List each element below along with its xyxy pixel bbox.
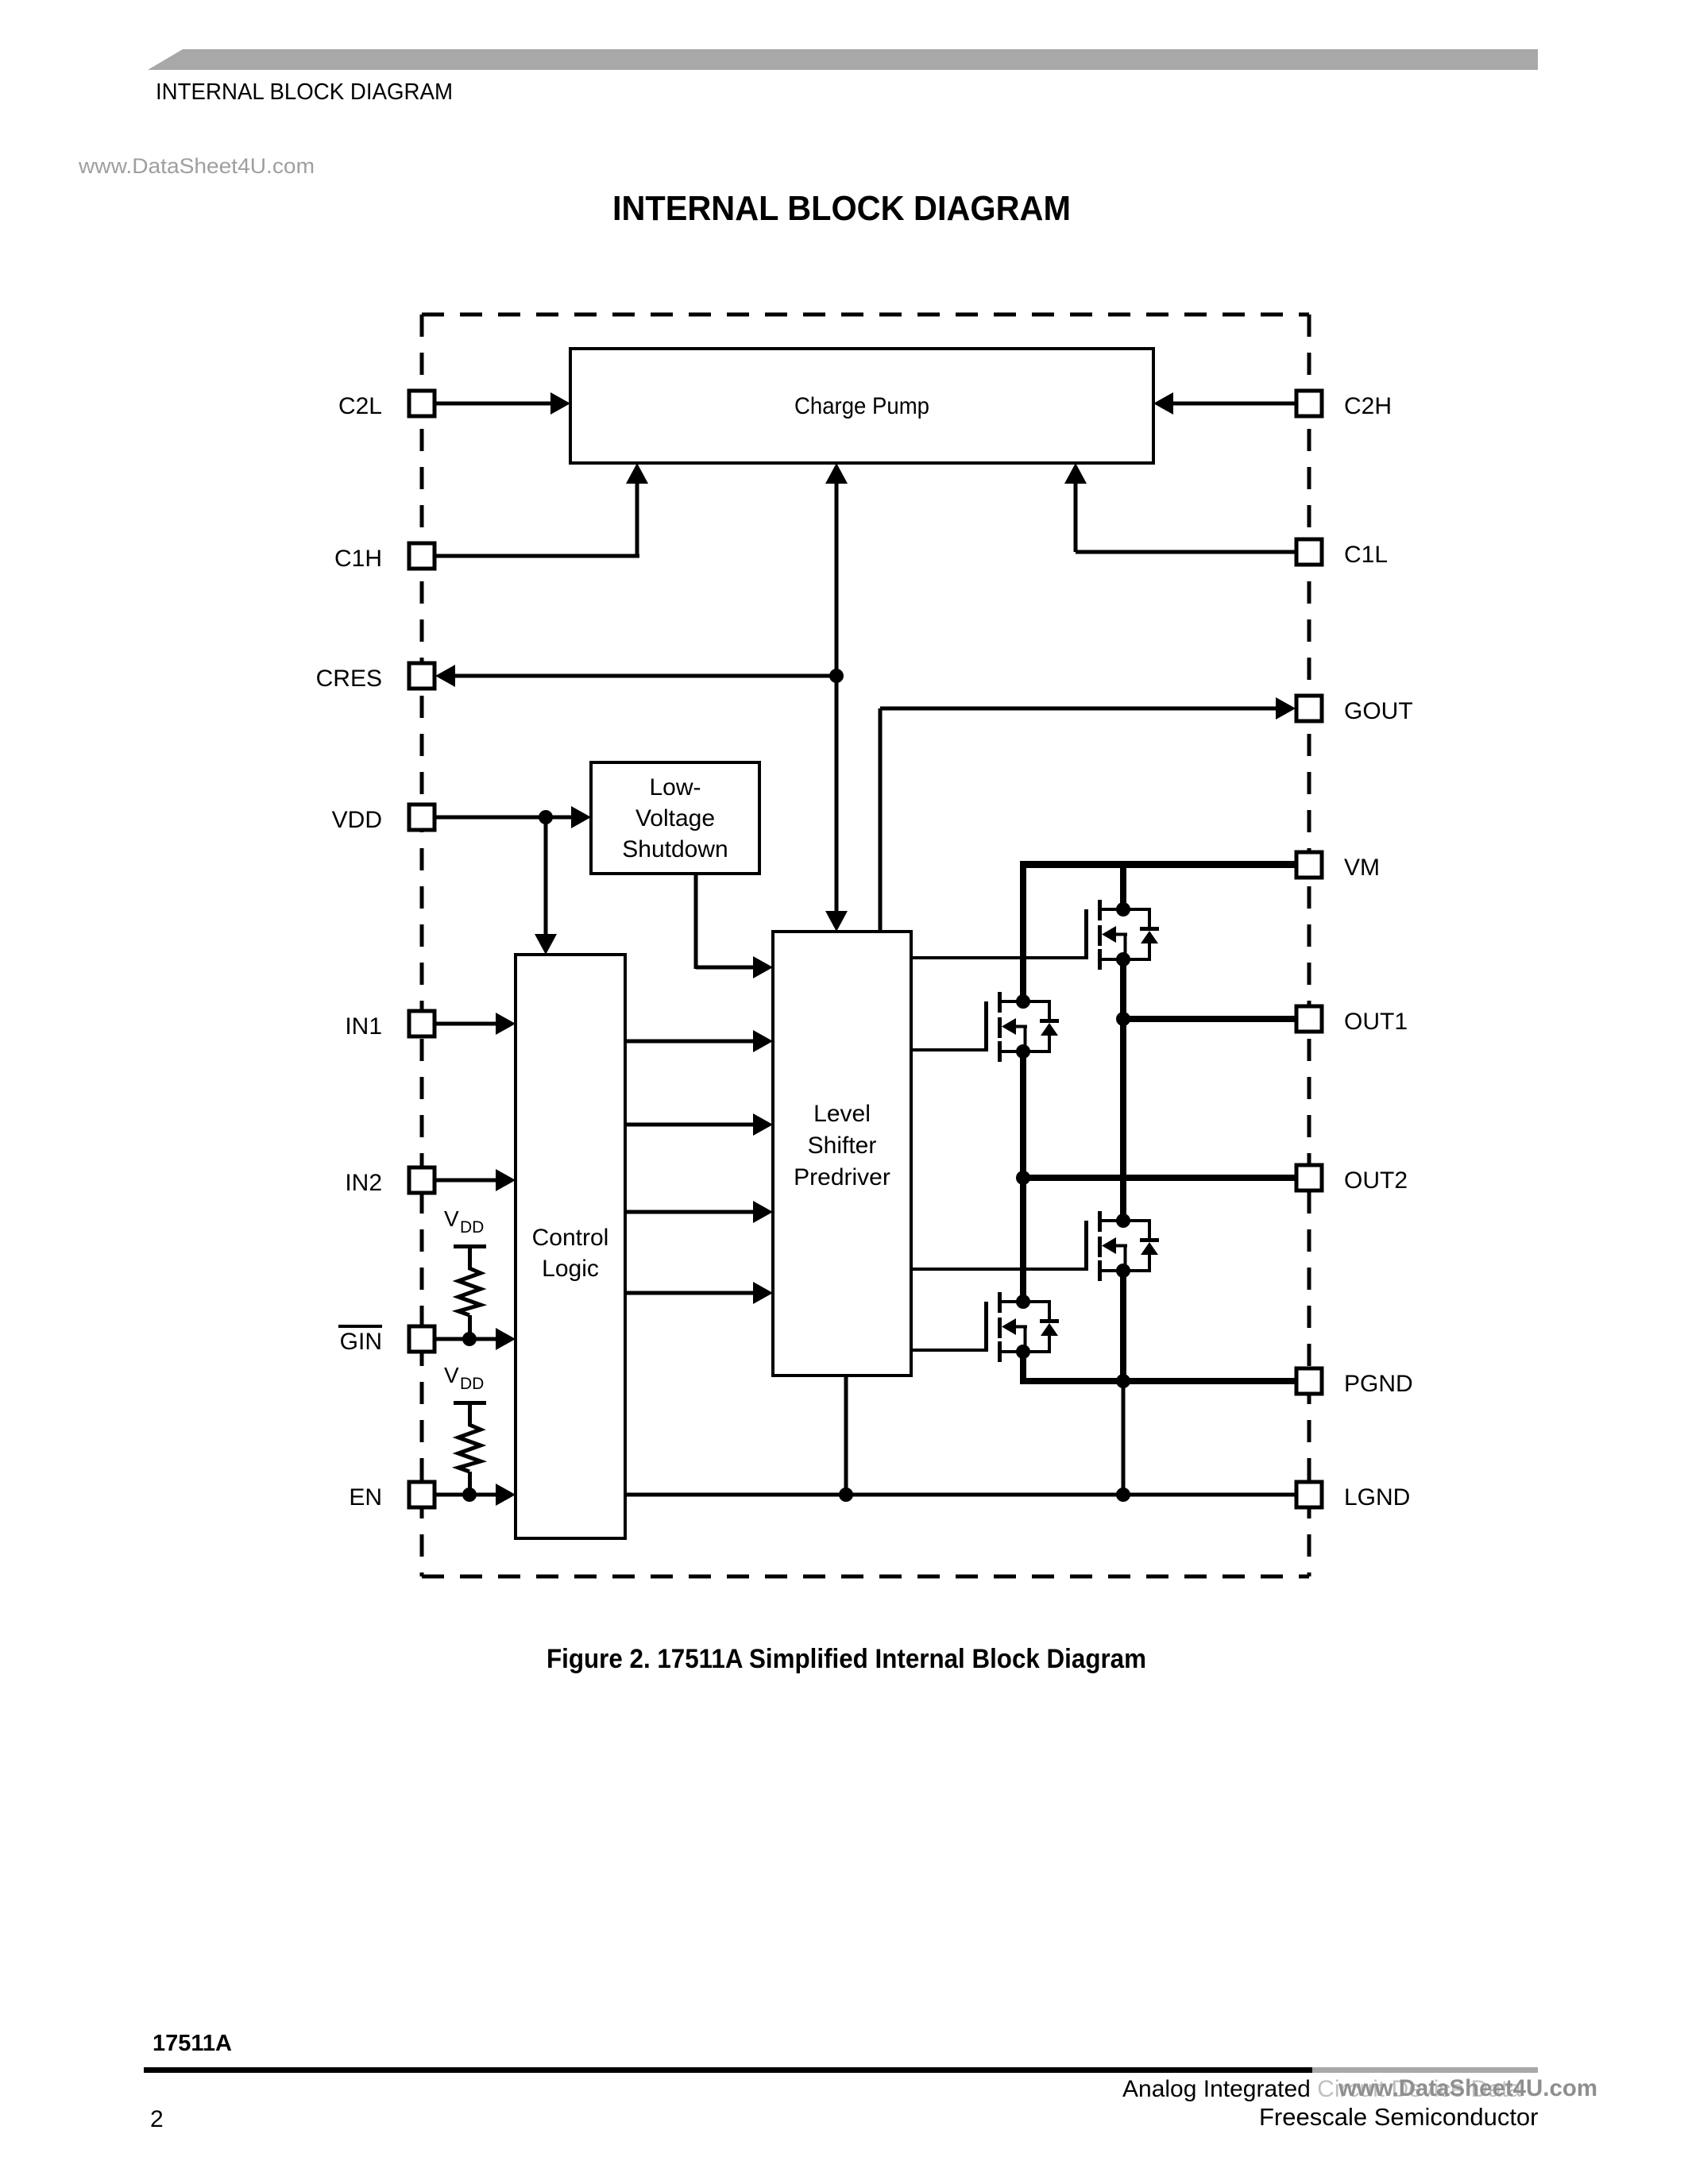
VDD supply label for R1: [444, 1206, 484, 1237]
low-voltage shutdown block U2: [591, 762, 759, 874]
svg-text:VM: VM: [1344, 855, 1380, 881]
wire VM rail: [1023, 861, 1298, 868]
svg-text:Predriver: Predriver: [794, 1164, 890, 1190]
node PGND junction: [1116, 1374, 1130, 1388]
wire Q3 source to PGND rail: [1120, 1268, 1126, 1381]
wire OUT2 rail: [1023, 1175, 1298, 1181]
VDD supply label for R2: [444, 1363, 484, 1393]
wire VDD junction to control logic: [535, 817, 557, 955]
wire charge pump to level shifter vertical: [825, 463, 848, 932]
svg-text:www.DataSheet4U.com: www.DataSheet4U.com: [78, 154, 315, 178]
svg-text:www.DataSheet4U.com: www.DataSheet4U.com: [1338, 2075, 1597, 2101]
wire Q2 source to Q4 drain: [1020, 1052, 1026, 1302]
svg-text:2: 2: [150, 2106, 164, 2132]
wire Q1 gate: [911, 956, 1085, 959]
wire IN2 to control logic: [435, 1169, 516, 1191]
pin IN2: [345, 1167, 435, 1196]
wire GOUT from level shifter: [879, 697, 1296, 932]
svg-text:Shutdown: Shutdown: [622, 836, 728, 862]
svg-text:Voltage: Voltage: [635, 805, 715, 832]
resistor R1 pull-up on GIN: [454, 1244, 486, 1339]
wire PGND to LGND vertical: [1122, 1381, 1126, 1495]
IC boundary dashed box: [422, 314, 1309, 1576]
wire C2H to charge pump: [1153, 392, 1298, 415]
svg-text:DD: DD: [460, 1375, 484, 1393]
wire Q1 source to Q3 drain: [1120, 959, 1126, 1221]
pin OUT2: [1296, 1165, 1408, 1194]
svg-text:GOUT: GOUT: [1344, 698, 1413, 724]
wire Q3 gate: [911, 1268, 1085, 1271]
svg-text:OUT2: OUT2: [1344, 1167, 1408, 1194]
svg-text:LGND: LGND: [1344, 1484, 1410, 1511]
wire EN to control logic: [435, 1484, 516, 1506]
svg-text:Figure 2. 17511A Simplified In: Figure 2. 17511A Simplified Internal Blo…: [547, 1644, 1146, 1674]
node GIN pull-up junction: [462, 1332, 477, 1346]
transistor Q3 low-side OUT1: [1084, 1211, 1159, 1281]
wire OUT1 rail: [1123, 1016, 1298, 1022]
svg-text:17511A: 17511A: [153, 2031, 232, 2056]
charge pump block U1: [570, 349, 1153, 463]
wire GIN to control logic: [435, 1328, 516, 1350]
svg-text:Shifter: Shifter: [808, 1133, 877, 1159]
pin CRES: [316, 663, 435, 692]
level shifter predriver block U4: [773, 932, 911, 1376]
node EN pull-up junction: [462, 1488, 477, 1502]
wire VM to Q2 drain: [1020, 861, 1026, 1001]
node OUT1 junction: [1116, 1012, 1130, 1026]
wire EN rail to LGND: [625, 1493, 1298, 1497]
wire Q4 source to PGND rail: [1020, 1352, 1126, 1384]
wire control logic to level shifter 2: [625, 1113, 773, 1136]
svg-text:C1H: C1H: [334, 546, 382, 572]
node CRES junction: [829, 669, 844, 683]
pin C1H: [334, 543, 435, 572]
svg-text:IN1: IN1: [345, 1013, 382, 1040]
svg-text:Charge Pump: Charge Pump: [794, 393, 929, 419]
resistor R2 pull-up on EN: [454, 1401, 486, 1495]
footer watermark bar: [1312, 2067, 1538, 2073]
svg-text:IN2: IN2: [345, 1170, 382, 1196]
svg-text:EN: EN: [349, 1484, 382, 1511]
pin VM: [1296, 852, 1380, 881]
svg-text:DD: DD: [460, 1218, 484, 1237]
wire PGND rail: [1123, 1378, 1298, 1384]
svg-text:C1L: C1L: [1344, 542, 1388, 568]
pin C1L: [1296, 539, 1388, 568]
svg-text:CRES: CRES: [316, 666, 382, 692]
svg-text:PGND: PGND: [1344, 1371, 1413, 1397]
pin PGND: [1296, 1368, 1413, 1397]
wire low-voltage shutdown to level shifter: [694, 874, 774, 978]
node level shifter ground junction: [839, 1488, 853, 1502]
node OUT2 junction: [1016, 1171, 1030, 1185]
transistor Q2 high-side OUT2: [984, 992, 1059, 1062]
pin C2L: [338, 391, 435, 419]
svg-text:V: V: [444, 1363, 459, 1387]
pin EN: [349, 1482, 435, 1511]
wire CRES: [435, 665, 836, 687]
svg-text:V: V: [444, 1206, 459, 1231]
wire VDD to low-voltage shutdown: [435, 806, 591, 828]
pin IN1: [345, 1011, 435, 1040]
pin OUT1: [1296, 1006, 1408, 1035]
wire C2L to charge pump: [435, 392, 570, 415]
wire IN1 to control logic: [435, 1013, 516, 1035]
pin GOUT: [1296, 696, 1413, 724]
control logic block U3: [516, 955, 625, 1538]
svg-text:C2H: C2H: [1344, 393, 1392, 419]
pin VDD: [332, 805, 435, 833]
node VDD junction: [539, 810, 553, 824]
transistor Q4 low-side OUT2: [984, 1292, 1059, 1362]
footer rule: [144, 2067, 1312, 2073]
header banner bar: [148, 49, 1538, 70]
svg-text:INTERNAL BLOCK DIAGRAM: INTERNAL BLOCK DIAGRAM: [156, 79, 453, 105]
wire C1H to charge pump bottom: [435, 463, 648, 558]
svg-text:Level: Level: [813, 1101, 871, 1127]
svg-text:C2L: C2L: [338, 393, 382, 419]
wire VM to Q1 drain: [1120, 861, 1126, 909]
svg-text:Logic: Logic: [542, 1256, 599, 1282]
wire control logic to level shifter 1: [625, 1030, 773, 1052]
svg-text:Control: Control: [532, 1225, 609, 1251]
footer watermark overlay box: [1312, 2073, 1605, 2105]
svg-text:OUT1: OUT1: [1344, 1009, 1408, 1035]
pin LGND: [1296, 1482, 1410, 1511]
svg-text:INTERNAL BLOCK DIAGRAM: INTERNAL BLOCK DIAGRAM: [612, 189, 1071, 228]
svg-text:Low-: Low-: [649, 774, 701, 801]
wire control logic to level shifter 3: [625, 1201, 773, 1223]
pin GIN active-low: [338, 1325, 435, 1355]
transistor Q1 high-side OUT1: [1084, 900, 1159, 970]
wire Q2 gate: [911, 1048, 985, 1051]
svg-text:Freescale Semiconductor: Freescale Semiconductor: [1259, 2103, 1539, 2131]
wire control logic to level shifter 4: [625, 1282, 773, 1304]
wire C1L to charge pump bottom: [1064, 463, 1298, 554]
node PGND rail to LGND junction: [1116, 1488, 1130, 1502]
pin C2H: [1296, 391, 1392, 419]
wire Q4 gate: [911, 1349, 985, 1352]
svg-text:GIN: GIN: [340, 1329, 382, 1355]
wire level shifter bottom to EN rail: [844, 1376, 848, 1495]
svg-text:VDD: VDD: [332, 807, 382, 833]
